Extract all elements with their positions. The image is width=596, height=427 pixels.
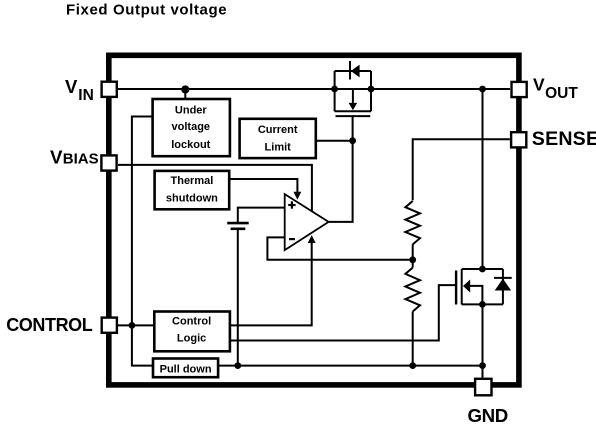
- wire: NMOS source down to GND pin: [482, 304, 484, 379]
- svg-text:Under: Under: [175, 105, 208, 117]
- wire: op-amp + input to reference: [238, 208, 285, 222]
- node where CONTROL joins vertical bus: [129, 322, 136, 329]
- pin GND pad: [475, 379, 491, 396]
- resistor R1: [405, 201, 420, 244]
- op-amp U1 error amplifier: [285, 194, 329, 250]
- node at PMOS gate: [349, 137, 356, 144]
- svg-text:Pull down: Pull down: [160, 363, 212, 375]
- svg-text:V: V: [50, 146, 63, 167]
- node: feedback divider tap: [409, 256, 416, 263]
- svg-text:shutdown: shutdown: [166, 193, 218, 205]
- block: Thermal shutdown: [155, 171, 230, 209]
- svg-text:Limit: Limit: [265, 142, 292, 154]
- svg-text:lockout: lockout: [171, 139, 210, 151]
- node: PMOS drain on rail: [368, 86, 375, 93]
- wire: op-amp output up to PMOS gate: [329, 117, 353, 222]
- svg-text:voltage: voltage: [172, 121, 211, 133]
- svg-text:V: V: [533, 75, 545, 95]
- svg-text:V: V: [65, 76, 78, 97]
- arrow from thermal shutdown into op-amp: [294, 192, 302, 200]
- Q1 channel arrow: [349, 103, 358, 110]
- pin VIN pad: [102, 82, 117, 97]
- svg-text:GND: GND: [468, 405, 508, 426]
- pin VBIAS pad: [101, 155, 116, 170]
- wire: rail stem into UVLO top: [184, 89, 186, 100]
- block: Control Logic: [154, 312, 230, 352]
- block: Under voltage lockout: [153, 99, 230, 156]
- wire: op-amp - input feedback loop to divider node: [267, 237, 412, 259]
- svg-text:SENSE: SENSE: [532, 128, 596, 150]
- node: ground rail to GND pin: [479, 362, 486, 369]
- wire: control logic to op-amp up arrow: [230, 241, 312, 325]
- resistor R2: [405, 268, 420, 312]
- pin CONTROL pad: [102, 318, 117, 333]
- svg-text:Control: Control: [172, 316, 211, 328]
- wire: between R1 and R2: [412, 244, 414, 267]
- svg-text:IN: IN: [78, 87, 94, 104]
- wire: internal ground rail: [218, 365, 482, 367]
- wire: VBIAS to op-amp upper edge: [118, 165, 312, 213]
- pin SENSE pad: [511, 132, 526, 147]
- node: reference to ground rail: [234, 362, 241, 369]
- svg-text:Fixed Output voltage: Fixed Output voltage: [66, 1, 227, 18]
- node on rail at VOUT branch: [479, 86, 486, 93]
- wire: CONTROL pin to Control Logic: [118, 324, 155, 326]
- diode D1 body diode of Q1: [349, 61, 351, 80]
- svg-text:Current: Current: [258, 124, 298, 136]
- IC boundary frame: [109, 55, 519, 385]
- svg-text:CONTROL: CONTROL: [6, 315, 93, 335]
- svg-text:Thermal: Thermal: [171, 175, 214, 187]
- block: Current Limit: [240, 119, 316, 158]
- op-amp - sign: [289, 238, 295, 240]
- reference cell bottom plate: [231, 228, 246, 231]
- node: Q2 drain: [479, 266, 486, 273]
- wire: VIN to VOUT main rail: [118, 88, 510, 90]
- wire: reference down to ground rail: [237, 229, 239, 366]
- node: Q2 source: [479, 301, 486, 308]
- transistor Q1 PMOS pass device: [335, 71, 371, 116]
- wire: SENSE to divider top: [413, 139, 510, 200]
- wire: control logic to NMOS gate: [230, 285, 456, 340]
- wire: current limit output to PMOS gate node: [316, 140, 353, 142]
- op-amp + sign: [288, 201, 295, 208]
- transistor Q2 NMOS pull-down device: [456, 269, 503, 305]
- node on rail above UVLO: [181, 85, 189, 93]
- wire: VOUT rail down to NMOS drain: [482, 89, 484, 269]
- reference cell top plate: [227, 222, 249, 225]
- svg-text:Logic: Logic: [177, 333, 206, 345]
- diode D2 body diode of Q2: [494, 277, 512, 279]
- pin VOUT pad: [512, 82, 527, 97]
- wire: UVLO left edge down to pull-down, control bus: [132, 117, 153, 366]
- svg-text:BIAS: BIAS: [63, 151, 99, 168]
- node: divider bottom to ground rail: [409, 362, 416, 369]
- Q2 bulk arrow: [463, 280, 470, 293]
- node: PMOS source on rail: [331, 86, 338, 93]
- arrow from control logic into op-amp: [308, 235, 316, 243]
- wire: thermal shutdown output to op-amp arrow: [229, 179, 297, 194]
- svg-text:OUT: OUT: [545, 85, 578, 102]
- wire: R2 down to ground rail: [412, 312, 414, 366]
- block: Pull down: [153, 359, 218, 378]
